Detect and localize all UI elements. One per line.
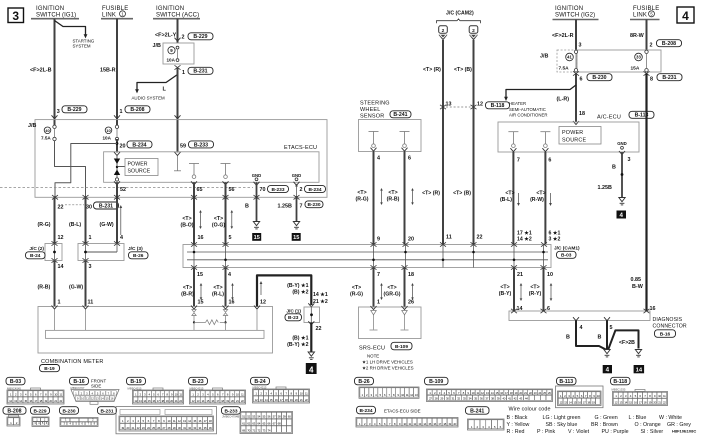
svg-text:LINK: LINK <box>102 12 116 18</box>
svg-text:B: B <box>566 335 570 341</box>
combination meter box B-19 <box>38 307 273 373</box>
svg-text:MB9C1535: MB9C1535 <box>612 388 626 392</box>
junction block fuse 9 box (ACC) <box>153 43 195 64</box>
svg-text:GND: GND <box>617 141 627 146</box>
svg-text:B-208: B-208 <box>130 107 144 113</box>
wire fusible link5 8R-W <box>630 20 647 52</box>
svg-text:AUDIO SYSTEM: AUDIO SYSTEM <box>132 95 166 100</box>
svg-text:14: 14 <box>636 368 643 374</box>
svg-text:(R-B): (R-B) <box>387 197 400 203</box>
svg-text:15: 15 <box>197 272 203 278</box>
svg-text:SB : Sky blue: SB : Sky blue <box>546 422 578 428</box>
connector pinout B-109 <box>425 377 553 401</box>
svg-text:J/B: J/B <box>540 54 548 60</box>
ground reference 15 (pin70) <box>252 233 261 241</box>
ignition switch IG1 header <box>31 6 79 19</box>
CAM1 bus line 1 <box>187 251 548 253</box>
meter internal wiring and gauge bar <box>46 309 265 338</box>
junction block big box <box>28 120 327 198</box>
svg-text:<T>: <T> <box>388 190 397 196</box>
svg-text:SEMI-AUTOMATIC: SEMI-AUTOMATIC <box>509 107 546 112</box>
fuse 40 7.5A <box>41 125 56 141</box>
svg-text:B-230: B-230 <box>592 75 606 81</box>
svg-text:B-231: B-231 <box>100 409 113 415</box>
svg-text:CONNECTOR: CONNECTOR <box>653 324 687 330</box>
connector pin 1 B-231 <box>175 65 214 76</box>
wire L (ACC feed) vertical <box>163 68 178 153</box>
svg-text:11: 11 <box>446 235 452 241</box>
svg-text:3: 3 <box>579 43 582 49</box>
svg-text:J/B: J/B <box>28 123 36 129</box>
wire 1.25B from ETACS pin2 to ground 15 <box>278 196 297 222</box>
svg-text:1: 1 <box>182 70 185 76</box>
svg-text:SI : Silver: SI : Silver <box>641 429 664 435</box>
svg-text:(R-L): (R-L) <box>212 292 224 298</box>
svg-text:7: 7 <box>517 158 520 164</box>
A/C-ECU label B-113 <box>597 111 654 120</box>
svg-text:<T>: <T> <box>214 216 223 222</box>
wire <T>(GR-G) CAM1 to SRS pin26 <box>384 268 415 308</box>
svg-text:HEATER: HEATER <box>509 101 526 106</box>
J/C (3) B-26 box <box>78 241 148 262</box>
svg-text:<T>: <T> <box>387 285 396 291</box>
ETACS pin 59 B-233 input <box>174 141 214 171</box>
svg-text:POWER: POWER <box>128 162 148 168</box>
svg-text:P : Pink: P : Pink <box>537 429 556 435</box>
branch arrow to heater semi-automatic air conditioner <box>504 85 576 118</box>
wire (R-G) pin22 to J/C2 <box>38 197 64 243</box>
pin 7 B-230 below J/B <box>294 195 324 209</box>
svg-text:4: 4 <box>120 235 123 241</box>
svg-text:B-230: B-230 <box>307 202 320 208</box>
svg-text:1: 1 <box>89 235 92 241</box>
svg-text:(R-W): (R-W) <box>530 197 544 203</box>
connector pinout B-113 <box>556 377 604 407</box>
svg-text:<T> (B): <T> (B) <box>454 67 472 73</box>
svg-text:B-24: B-24 <box>30 253 41 259</box>
svg-text:B-233: B-233 <box>271 187 284 193</box>
svg-text:IGNITION: IGNITION <box>156 6 184 12</box>
connector pinout B-208 <box>3 407 26 426</box>
svg-text:IGNITION: IGNITION <box>36 6 64 12</box>
connector pinout B-23 <box>189 377 246 404</box>
wire B to ground from A/C-ECU <box>598 152 624 198</box>
svg-text:SYSTEM: SYSTEM <box>73 43 91 48</box>
steering wheel sensor box <box>359 120 422 152</box>
SRS squib pin 26 <box>401 306 409 330</box>
svg-text:17 ★1: 17 ★1 <box>517 230 532 236</box>
pin 3 IG2 <box>579 43 582 49</box>
svg-text:15B-R: 15B-R <box>100 68 116 74</box>
svg-text:16: 16 <box>198 235 204 241</box>
svg-text:B: B <box>245 203 249 209</box>
svg-text:B-23: B-23 <box>192 379 203 385</box>
wire (G-W) J/C3 to meter pin11 <box>69 261 93 307</box>
svg-text:O : Orange: O : Orange <box>635 422 661 428</box>
svg-text:(B-Y): (B-Y) <box>499 291 512 297</box>
svg-text:DIAGNOSIS: DIAGNOSIS <box>653 317 683 323</box>
J/C CAM1 B-03 long box <box>183 245 580 268</box>
svg-text:6 ★1: 6 ★1 <box>549 230 561 236</box>
svg-text:B-113: B-113 <box>559 379 573 385</box>
svg-text:B-231: B-231 <box>662 75 676 81</box>
svg-text:L: L <box>163 87 167 93</box>
svg-text:B: B <box>598 335 602 341</box>
svg-text:18: 18 <box>408 272 414 278</box>
svg-text:SWITCH (IG2): SWITCH (IG2) <box>555 12 595 18</box>
pin 1 B-208 (FL1) <box>114 106 150 119</box>
ground reference 4 (A/C) <box>617 211 627 219</box>
svg-text:B : Black: B : Black <box>507 415 528 421</box>
svg-text:NOTE: NOTE <box>367 353 379 358</box>
svg-text:<F>2L-R: <F>2L-R <box>552 33 574 39</box>
ignition switch IG2 header <box>553 6 599 20</box>
svg-text:22: 22 <box>316 326 322 332</box>
wire <T>(R-Y) CAM1 to diagnosis 6 <box>529 268 552 313</box>
ignition switch ACC header <box>153 6 200 19</box>
svg-text:12: 12 <box>58 235 64 241</box>
svg-text:B-16: B-16 <box>660 332 671 338</box>
svg-text:<T>: <T> <box>500 285 509 291</box>
power source box inside A/C-ECU <box>559 127 601 145</box>
svg-text:33: 33 <box>636 55 641 60</box>
wire label <F>2L-Y <box>155 32 177 38</box>
svg-text:4: 4 <box>377 155 380 161</box>
svg-text:B-229: B-229 <box>193 34 207 40</box>
svg-text:AIR CONDITIONER: AIR CONDITIONER <box>509 113 547 118</box>
pin 59 chevron at J/B top edge <box>175 115 181 119</box>
svg-text:L : Blue: L : Blue <box>629 415 647 421</box>
wire (B-L) pin30 to J/C3 <box>69 197 92 243</box>
sensor coil pin 6 <box>400 132 412 162</box>
svg-text:(O-G): (O-G) <box>212 223 226 229</box>
connector pinout B-16 front side <box>70 377 120 404</box>
drawing number <box>672 429 696 434</box>
svg-text:B-W: B-W <box>632 284 644 290</box>
svg-text:10A: 10A <box>167 57 176 62</box>
svg-text:V : Violet: V : Violet <box>568 429 590 435</box>
svg-text:(B-Y) ★2: (B-Y) ★2 <box>287 342 308 348</box>
connector pinout B-234 ETACS-ECU side <box>356 406 458 427</box>
pin 70 label B-233 <box>260 186 289 193</box>
wire B J/C1 to ground 4 <box>287 323 311 352</box>
ground A/C-ECU <box>619 198 625 205</box>
svg-text:GND: GND <box>292 173 302 178</box>
svg-text:56: 56 <box>229 187 235 193</box>
svg-text:STEERING: STEERING <box>360 100 390 106</box>
branch arrow to audio system <box>132 75 178 101</box>
svg-text:3: 3 <box>628 157 631 163</box>
A/C-ECU coil pin 6 <box>540 132 551 164</box>
fuse 33 15A <box>631 50 649 72</box>
wire sensor <T>(R-G) vertical <box>356 152 383 245</box>
svg-text:<F>2L-Y: <F>2L-Y <box>155 32 177 38</box>
connector pinout B-233 <box>222 407 293 434</box>
svg-text:GR : Grey: GR : Grey <box>667 422 691 428</box>
ground diagnosis 14 <box>635 350 641 357</box>
svg-text:B-208: B-208 <box>7 409 21 415</box>
fusible link 5 header <box>630 6 660 20</box>
svg-text:16: 16 <box>229 299 235 305</box>
wire colour code legend <box>507 407 692 435</box>
wire label <F>2L-B <box>30 68 52 74</box>
pin 2 label B-234 <box>295 184 325 197</box>
svg-text:B-233: B-233 <box>194 142 208 148</box>
pin 56 label <box>229 187 235 193</box>
svg-text:(B-L): (B-L) <box>69 222 81 228</box>
ETACS coil pin 56 <box>221 164 231 185</box>
svg-text:7: 7 <box>377 272 380 278</box>
ground diagnosis 4 <box>604 350 610 357</box>
svg-text:<T>: <T> <box>183 285 192 291</box>
svg-text:6: 6 <box>580 76 583 82</box>
svg-text:W : White: W : White <box>659 415 682 421</box>
svg-text:(R-G): (R-G) <box>356 197 369 203</box>
svg-text:J/C (2): J/C (2) <box>29 246 44 252</box>
svg-text:4: 4 <box>682 9 689 23</box>
svg-text:PU : Purple: PU : Purple <box>602 429 629 435</box>
svg-text:B-118: B-118 <box>491 103 505 109</box>
svg-text:13: 13 <box>446 101 452 107</box>
svg-text:14 ★2: 14 ★2 <box>517 237 532 243</box>
svg-text:<T> (R): <T> (R) <box>423 67 441 73</box>
SRS-ECU box B-109 <box>359 307 422 351</box>
svg-text:B-234: B-234 <box>308 187 321 193</box>
power source diodes in ETACS <box>114 152 125 185</box>
svg-text:B-118: B-118 <box>613 379 627 385</box>
svg-text:11: 11 <box>88 299 94 305</box>
svg-text:1.25B: 1.25B <box>278 203 292 209</box>
ground pin2 <box>293 222 299 229</box>
svg-text:B-234: B-234 <box>132 142 146 148</box>
svg-text:9: 9 <box>377 236 380 242</box>
wire IG1 2L-B vertical <box>54 19 56 127</box>
svg-text:30: 30 <box>86 205 92 211</box>
svg-text:<T>: <T> <box>530 285 539 291</box>
svg-text:B-26: B-26 <box>133 253 144 259</box>
wire <T>(B-Y) CAM1 to diagnosis 14 <box>499 268 523 313</box>
svg-text:H8F10E108C: H8F10E108C <box>672 429 696 434</box>
svg-text:B-03: B-03 <box>10 379 21 385</box>
svg-text:2: 2 <box>300 187 303 193</box>
svg-text:8: 8 <box>650 76 653 82</box>
svg-text:7: 7 <box>300 203 303 209</box>
svg-text:14 ★1: 14 ★1 <box>313 292 328 298</box>
svg-text:LG : Light green: LG : Light green <box>543 415 581 421</box>
svg-text:(R-G): (R-G) <box>350 292 363 298</box>
svg-text:(GR-G): (GR-G) <box>384 292 401 298</box>
svg-text:5: 5 <box>229 235 232 241</box>
svg-text:B-241: B-241 <box>470 409 484 415</box>
svg-text:6: 6 <box>408 155 411 161</box>
svg-text:1: 1 <box>58 299 61 305</box>
svg-text:6: 6 <box>548 158 551 164</box>
svg-text:12: 12 <box>477 101 483 107</box>
svg-text:B-109: B-109 <box>429 379 443 385</box>
wire label 15B-R <box>100 68 116 74</box>
svg-text:B-234: B-234 <box>359 408 372 414</box>
connector pinout B-19 <box>127 377 184 404</box>
svg-text:8R-W: 8R-W <box>630 33 645 39</box>
fusible link 1 header <box>101 6 133 19</box>
svg-text:SIDE: SIDE <box>91 383 101 388</box>
ETACS GND pin 70 <box>252 173 262 186</box>
connector pinout B-230 <box>60 407 99 427</box>
pin 65 label <box>197 187 203 193</box>
svg-text:(G-W): (G-W) <box>100 222 114 228</box>
svg-text:<T>: <T> <box>536 191 545 197</box>
svg-text:(G-W): (G-W) <box>69 284 83 290</box>
svg-text:(R-G): (R-G) <box>38 222 51 228</box>
svg-text:5: 5 <box>610 325 613 331</box>
svg-text:15: 15 <box>254 235 260 241</box>
svg-text:3: 3 <box>12 9 19 23</box>
svg-text:SOURCE: SOURCE <box>128 169 151 175</box>
CAM2 connector symbol left <box>439 26 448 41</box>
svg-text:16: 16 <box>650 306 656 312</box>
svg-text:GND: GND <box>252 173 262 178</box>
svg-text:SWITCH (IG1): SWITCH (IG1) <box>36 12 76 18</box>
svg-text:JMB0C4794B: JMB0C4794B <box>222 415 239 419</box>
svg-text:2: 2 <box>650 43 653 49</box>
pin 6 B-230 <box>573 71 612 82</box>
connector pinout B-229 <box>31 407 50 427</box>
svg-text:14: 14 <box>58 264 64 270</box>
svg-text:4: 4 <box>580 325 583 331</box>
pin 3 B-229 (IG1) <box>52 106 88 119</box>
sensor coil pin 4 <box>369 132 381 162</box>
svg-text:10A: 10A <box>103 136 112 141</box>
svg-text:B-241: B-241 <box>393 112 407 118</box>
svg-text:<T>: <T> <box>352 285 361 291</box>
wire CAN <T>(R) vertical <box>423 40 443 245</box>
svg-text:(R-Y): (R-Y) <box>529 291 542 297</box>
svg-text:21 ★2: 21 ★2 <box>313 299 328 305</box>
svg-text:B-19: B-19 <box>130 379 141 385</box>
svg-text:0.85: 0.85 <box>631 277 642 283</box>
svg-text:26: 26 <box>408 299 414 305</box>
svg-text:POWER: POWER <box>562 130 583 136</box>
CAM1 top pin labels 11 and 22 <box>446 235 483 241</box>
pin 52 label <box>120 187 126 193</box>
svg-text:(B-L): (B-L) <box>500 197 512 203</box>
steering wheel sensor label B-241 <box>360 100 411 119</box>
svg-text:(B-R): (B-R) <box>181 292 194 298</box>
wire B diagnosis pin5 to ground <box>598 321 613 350</box>
svg-text:BR : Brown: BR : Brown <box>591 422 618 428</box>
svg-text:B: B <box>612 165 616 171</box>
svg-text:4: 4 <box>620 212 624 219</box>
svg-text:59: 59 <box>180 144 186 150</box>
wire <F>2B to ground 14 <box>608 330 638 349</box>
svg-text:52: 52 <box>120 187 126 193</box>
connector pin 2 B-229 <box>175 33 214 41</box>
svg-text:SENSOR: SENSOR <box>360 114 384 120</box>
diagnosis connector box B-16 <box>509 306 687 338</box>
wire (G-W) pin52 to J/C3 <box>100 182 124 243</box>
power source box in ETACS <box>125 159 158 176</box>
ETACS coil pin 65 <box>189 164 199 185</box>
svg-text:15: 15 <box>198 299 204 305</box>
svg-text:3: 3 <box>89 264 92 270</box>
svg-text:(B-Y) ★1: (B-Y) ★1 <box>287 283 308 289</box>
svg-text:B-230: B-230 <box>62 409 75 415</box>
svg-text:B-231: B-231 <box>193 69 207 75</box>
wire fusible link 15B-R vertical <box>116 19 118 127</box>
svg-text:(R-B): (R-B) <box>38 284 51 290</box>
wire A/C CAN <T>(B-L) vertical <box>500 152 532 245</box>
CAM1 pin crossings and junction dots <box>191 242 547 269</box>
svg-text:3: 3 <box>57 109 60 115</box>
svg-text:2: 2 <box>182 35 185 41</box>
connector pinout B-24 <box>251 377 310 403</box>
ETACS GND pin 2 <box>292 173 302 186</box>
pin 2 B-208 <box>650 40 682 49</box>
svg-text:B-23: B-23 <box>288 315 299 321</box>
svg-text:22: 22 <box>477 235 483 241</box>
svg-text:B-16: B-16 <box>73 379 84 385</box>
svg-text:B-208: B-208 <box>662 41 676 47</box>
svg-text:22: 22 <box>58 205 64 211</box>
svg-text:70: 70 <box>260 187 266 193</box>
sheet number 4 <box>677 7 694 23</box>
wire label <F>2L-R <box>552 33 574 39</box>
svg-text:10: 10 <box>106 128 111 133</box>
svg-text:4: 4 <box>228 272 231 278</box>
svg-text:4: 4 <box>606 367 610 374</box>
svg-text:(B) ★2: (B) ★2 <box>292 290 308 296</box>
CAM1 bus line 2 <box>187 259 548 261</box>
svg-text:★2 RH DRIVE VEHICLES: ★2 RH DRIVE VEHICLES <box>362 365 414 370</box>
svg-text:18: 18 <box>579 111 585 117</box>
wire <T>(O-G) ETACS56 to CAM1 <box>212 182 233 244</box>
svg-text:LINK: LINK <box>633 12 647 18</box>
svg-text:B-26: B-26 <box>358 379 369 385</box>
junction block box (IG2 fuses) <box>540 50 661 72</box>
svg-text:G : Green: G : Green <box>595 415 618 421</box>
svg-text:41: 41 <box>567 55 572 60</box>
J/C CAM2 label and brace <box>437 10 481 23</box>
svg-text:2: 2 <box>442 28 445 34</box>
crossover wire fuse40 to pin30 <box>55 141 86 198</box>
sheet number 3 <box>8 8 24 23</box>
wire <T>(B-R) CAM1 to meter 15 <box>181 268 203 307</box>
svg-text:<T>: <T> <box>357 190 366 196</box>
CAM1 bottom pin labels <box>197 272 553 278</box>
ground reference 4 (J/C1) <box>306 363 317 374</box>
svg-text:Wire colour code: Wire colour code <box>509 407 551 413</box>
svg-text:12: 12 <box>260 299 266 305</box>
svg-text:B-233: B-233 <box>224 409 237 415</box>
svg-text:15A: 15A <box>631 66 640 72</box>
svg-text:1: 1 <box>120 109 123 115</box>
svg-text:A/C-ECU: A/C-ECU <box>597 114 621 120</box>
SRS squib pin 1 <box>370 306 378 330</box>
crossover wire node20 to pin22 <box>55 144 117 198</box>
ETACS-ECU box <box>104 145 319 183</box>
svg-text:21: 21 <box>517 272 523 278</box>
svg-text:(L-R): (L-R) <box>557 97 570 103</box>
svg-text:(B) ★1: (B) ★1 <box>292 336 308 342</box>
svg-text:SOURCE: SOURCE <box>562 138 586 144</box>
svg-text:J/C (CAM2): J/C (CAM2) <box>446 10 474 16</box>
svg-text:20: 20 <box>408 236 414 242</box>
note LH/RH drive vehicles <box>362 353 414 370</box>
pin 8 B-231 <box>644 71 683 82</box>
meter top pins <box>52 306 261 310</box>
CAN mid labels near CAM1 <box>422 191 471 197</box>
connector pinout B-231 <box>98 407 217 434</box>
